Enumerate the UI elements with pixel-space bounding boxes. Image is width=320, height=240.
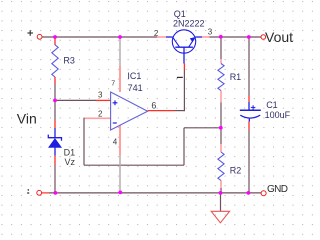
node junction R1R2 feedback [219,126,223,130]
wire R2 bottom stub [220,181,222,193]
wire bottom ground rail [42,192,262,194]
wire D1 anode stub [54,156,56,166]
wire op-amp pin3 net [55,99,111,101]
wire op-amp output pin6 [148,110,185,112]
wire R1 bottom stub [220,91,222,128]
wire feedback right vertical [183,128,185,165]
node junction D1 ground [54,191,58,195]
wire Vin branch vertical [54,84,56,120]
wire op-amp V+ pin7 [119,37,121,92]
label plus mark [27,30,33,36]
wire R2 branch top [220,128,222,152]
svg-text:R3: R3 [63,56,75,66]
wire C1 bottom [248,122,250,193]
wire R3 top stub [54,37,56,45]
terminal Vin- [37,190,42,195]
svg-text:Vz: Vz [65,157,76,167]
svg-text:GND: GND [267,184,288,195]
transistor Q1 [166,30,202,64]
terminal GND [261,191,266,196]
svg-text:3: 3 [98,91,103,100]
wire ground stub [220,193,222,211]
svg-text:IC1: IC1 [127,71,141,81]
terminal Vin+ [37,34,42,39]
svg-text:Vout: Vout [265,29,293,45]
svg-text:R1: R1 [230,72,242,82]
wire R3 bottom stub [54,77,56,84]
node junction pin4 ground [118,191,122,195]
node junction R1 top [219,35,223,39]
svg-text:R2: R2 [230,165,242,175]
svg-text:741: 741 [128,83,143,93]
op-amp U1 triangle [111,92,148,130]
svg-text:3: 3 [208,28,213,37]
label minus mark [27,189,29,193]
wire feedback left vertical [83,118,85,166]
svg-text:Vin: Vin [17,110,37,126]
wire R1 branch top [220,37,222,64]
wire op-amp pin2 stub [84,117,111,119]
ground symbol [211,211,229,223]
node junction top R3 [53,35,57,39]
svg-text:7: 7 [111,80,115,87]
capacitor C1 [240,102,261,122]
wire top rail left (Vin+ to Q1 collector) [42,36,166,38]
svg-text:4: 4 [113,137,118,146]
node junction C1 top [247,35,251,39]
wire feedback bottom horizontal [84,164,184,166]
node junction pin7 supply [118,35,122,39]
svg-text:C1: C1 [266,100,278,110]
wire op-amp V- pin4 [119,125,121,192]
wire feedback to R1R2 node [184,127,221,129]
resistor R1 [218,64,224,91]
svg-text:2: 2 [98,110,103,119]
svg-text:2N2222: 2N2222 [173,18,205,28]
wire D1 cathode stub [54,120,56,128]
wire top rail right (Q1 emitter to Vout) [202,36,261,38]
label net1 dash at Q1 base [177,76,183,78]
svg-text:6: 6 [151,101,156,111]
resistor R3 [52,45,58,77]
svg-text:100uF: 100uF [265,110,291,120]
wire C1 branch top [248,37,250,102]
resistor R2 [218,152,224,181]
zener diode D1 [48,128,61,156]
terminal Vout [261,35,266,40]
svg-text:2: 2 [154,29,159,38]
node junction C1 ground [247,191,251,195]
wire D1 to ground rail [54,165,56,193]
node junction Vin sense [53,99,57,103]
node junction R2 ground [219,191,223,195]
wire Q1 base vertical [183,64,185,112]
